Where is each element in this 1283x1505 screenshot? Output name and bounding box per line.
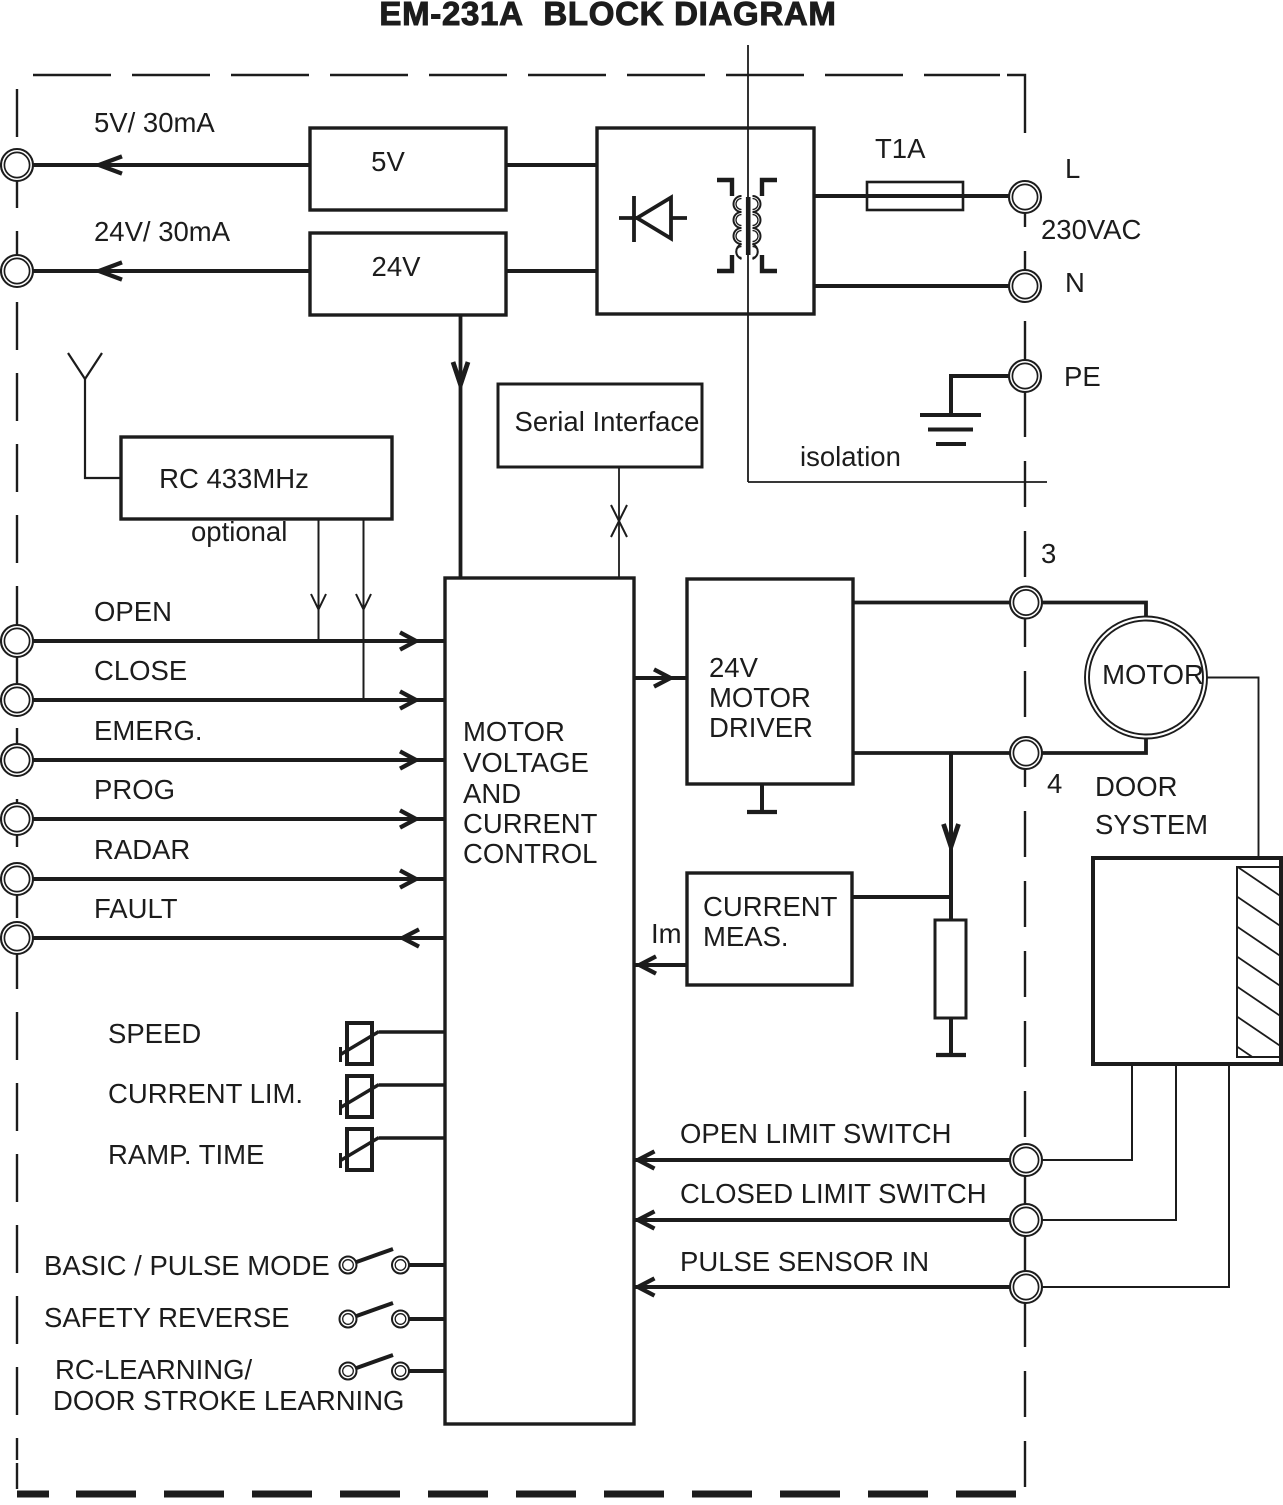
border left dashed [16, 89, 18, 1460]
input PROG [1, 774, 445, 835]
switch BASIC / PULSE MODE [44, 1249, 445, 1281]
wire 24V output [33, 269, 310, 273]
wire door to pulse sensor [1042, 1064, 1229, 1287]
svg-text:L: L [1065, 153, 1080, 184]
wire driver to terminal 3 [853, 601, 1010, 605]
output FAULT [1, 893, 445, 954]
svg-text:CURRENT: CURRENT [463, 808, 598, 839]
wire motor to door [1207, 678, 1259, 859]
svg-text:4: 4 [1047, 768, 1062, 799]
svg-text:OPEN: OPEN [94, 596, 172, 627]
border top-right corner [1007, 75, 1025, 133]
svg-text:PE: PE [1064, 361, 1101, 392]
wire driver to terminal 4 [853, 751, 1010, 755]
border bottom-left corner [16, 1463, 18, 1489]
input EMERG [1, 715, 445, 776]
RC arrow to CLOSE [356, 519, 371, 699]
potentiometer RAMP TIME [108, 1129, 445, 1170]
door hatched strip [1217, 853, 1283, 1090]
ground driver [747, 784, 777, 812]
wire terminal 3 to motor [1042, 603, 1146, 617]
isolation line horizontal [748, 481, 1047, 483]
svg-text:SYSTEM: SYSTEM [1095, 809, 1208, 840]
switch SAFETY REVERSE [44, 1302, 445, 1333]
arrowhead branch down [944, 824, 959, 847]
wire open limit switch [634, 1118, 1042, 1176]
svg-text:T1A: T1A [875, 133, 926, 164]
terminal 5V out [1, 149, 33, 181]
terminal PE [1009, 360, 1041, 392]
svg-text:CLOSED LIMIT SWITCH: CLOSED LIMIT SWITCH [680, 1178, 987, 1209]
svg-text:DOOR STROKE LEARNING: DOOR STROKE LEARNING [53, 1385, 404, 1416]
wire branch to shunt [949, 753, 953, 920]
border right dashed [1024, 181, 1026, 1490]
arrowhead 5V left [99, 156, 122, 173]
svg-text:OPEN LIMIT SWITCH: OPEN LIMIT SWITCH [680, 1118, 951, 1149]
svg-text:24V: 24V [372, 251, 422, 282]
svg-text:EM-231A BLOCK DIAGRAM: EM-231A BLOCK DIAGRAM [379, 0, 836, 32]
svg-text:PROG: PROG [94, 774, 175, 805]
fuse T1A [867, 182, 963, 210]
svg-text:VOLTAGE: VOLTAGE [463, 747, 589, 778]
svg-text:AND: AND [463, 778, 521, 809]
svg-text:EMERG.: EMERG. [94, 715, 202, 746]
svg-text:RC-LEARNING/: RC-LEARNING/ [55, 1354, 252, 1385]
svg-text:MOTOR: MOTOR [1102, 659, 1204, 690]
svg-text:3: 3 [1041, 538, 1056, 569]
RC 433MHz box [121, 437, 392, 519]
svg-text:CURRENT: CURRENT [703, 891, 838, 922]
regulator 24V box [310, 233, 506, 315]
wire 24V box to rectifier [506, 269, 597, 273]
serial bidirectional mark [611, 505, 627, 537]
isolation line vertical [747, 45, 749, 482]
svg-text:Serial Interface: Serial Interface [515, 406, 700, 437]
control box MOTOR VOLTAGE AND CURRENT CONTROL [445, 578, 634, 1424]
motor M1 [1085, 617, 1207, 739]
wire Im to control [634, 963, 687, 967]
current meas box [687, 873, 852, 985]
terminal 4 [1010, 737, 1042, 769]
svg-text:CONTROL: CONTROL [463, 838, 597, 869]
ground PE [920, 415, 981, 444]
svg-text:Im: Im [651, 918, 682, 949]
input OPEN [1, 596, 445, 657]
terminal 24V out [1, 255, 33, 287]
svg-text:optional: optional [191, 516, 287, 547]
shunt resistor [935, 920, 966, 1018]
antenna [68, 353, 121, 478]
border top dashed [33, 74, 1000, 76]
arrowhead Im left [640, 956, 657, 973]
svg-text:RC 433MHz: RC 433MHz [159, 463, 309, 494]
wire closed limit switch [634, 1178, 1042, 1236]
wire rectifier to N [814, 284, 1010, 288]
svg-text:DOOR: DOOR [1095, 771, 1178, 802]
svg-text:PULSE SENSOR IN: PULSE SENSOR IN [680, 1246, 929, 1277]
wire rectifier to fuse to L [814, 194, 1010, 198]
shunt stem [949, 1018, 953, 1055]
wire terminal 4 to motor [1042, 739, 1146, 753]
svg-text:MEAS.: MEAS. [703, 921, 789, 952]
motor driver box [687, 579, 853, 784]
terminal 3 [1010, 587, 1042, 619]
border bottom dashed [17, 1491, 49, 1498]
svg-text:SPEED: SPEED [108, 1018, 201, 1049]
wire door to open limit [1042, 1064, 1132, 1160]
transformer T1 [717, 180, 777, 271]
rectifier box [597, 128, 814, 314]
svg-text:CURRENT LIM.: CURRENT LIM. [108, 1078, 303, 1109]
input CLOSE [1, 655, 445, 716]
svg-text:24V: 24V [709, 652, 759, 683]
switch RC-LEARNING [53, 1354, 445, 1416]
regulator 5V box [310, 128, 506, 210]
svg-text:SAFETY REVERSE: SAFETY REVERSE [44, 1302, 290, 1333]
serial wire [618, 467, 620, 578]
wire pulse sensor in [634, 1246, 1042, 1303]
wire 5V output [33, 163, 310, 167]
svg-text:DRIVER: DRIVER [709, 712, 813, 743]
door system box [1093, 858, 1281, 1064]
input RADAR [1, 834, 445, 895]
svg-text:isolation: isolation [800, 441, 901, 472]
svg-text:RAMP. TIME: RAMP. TIME [108, 1139, 264, 1170]
svg-text:5V/ 30mA: 5V/ 30mA [94, 107, 215, 138]
wire 24V down to control [459, 315, 463, 578]
potentiometer CURRENT LIM [108, 1076, 445, 1117]
RC arrow to OPEN [311, 519, 326, 640]
svg-text:24V/ 30mA: 24V/ 30mA [94, 216, 231, 247]
potentiometer SPEED [108, 1018, 445, 1064]
terminal N [1009, 270, 1041, 302]
svg-text:MOTOR: MOTOR [709, 682, 811, 713]
svg-text:RADAR: RADAR [94, 834, 190, 865]
arrowhead into driver [654, 669, 671, 686]
wire 5V box to rectifier [506, 163, 597, 167]
wire door to closed limit [1042, 1064, 1176, 1220]
svg-text:FAULT: FAULT [94, 893, 178, 924]
svg-text:230VAC: 230VAC [1041, 214, 1141, 245]
svg-text:5V: 5V [371, 146, 405, 177]
terminal L [1009, 181, 1041, 213]
ground shunt [936, 1053, 966, 1057]
wire control to driver [634, 676, 687, 680]
svg-text:CLOSE: CLOSE [94, 655, 187, 686]
serial interface box [498, 384, 702, 467]
svg-text:MOTOR: MOTOR [463, 716, 565, 747]
wire PE [951, 376, 1010, 413]
wire current meas to shunt [853, 895, 951, 899]
svg-text:BASIC / PULSE MODE: BASIC / PULSE MODE [44, 1250, 330, 1281]
arrowhead 24V left [99, 262, 122, 279]
label DOOR SYSTEM [1095, 771, 1208, 840]
svg-text:N: N [1065, 267, 1085, 298]
diode D1 [619, 196, 687, 242]
arrowhead 24V down [453, 362, 468, 385]
